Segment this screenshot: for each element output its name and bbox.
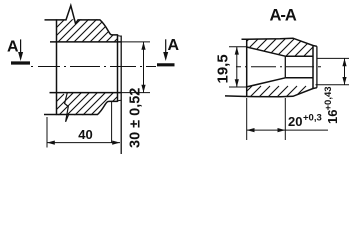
svg-text:30 ± 0,52: 30 ± 0,52 [128,88,144,148]
left view centerline [31,66,156,68]
left view lip bottom face [118,99,122,102]
dimension 16+0,43: top extension line [318,57,350,59]
section marker left: arrowhead [18,52,23,61]
dimension 30±0,52: dimension line with arrows [143,42,145,93]
dimension 20+0,3: left extension line [246,98,248,140]
left view hatching top band [34,18,170,76]
section marker left: thick cut stroke [11,61,30,64]
svg-text:40: 40 [78,127,92,142]
section marker right: arrowhead [163,52,168,61]
A-A hatching top band [226,36,351,84]
break line bottom (jagged) [65,93,69,122]
svg-text:19,5: 19,5 [215,54,232,83]
dimension 19,5: top extension line [229,46,247,48]
A-A bore bottom cone [247,78,286,87]
A-A outer profile [225,38,317,97]
svg-text:20: 20 [288,114,302,129]
A-A centerline [236,66,321,68]
A-A lip outer edge [316,46,318,87]
left view end lip outer edge, long [120,36,122,155]
extension line from bottom shoulder [111,102,113,143]
dimension 19,5: bottom extension line [229,86,247,88]
A-A bore top cone [247,47,286,56]
dimension 19,5: dimension line with arrows [236,47,238,87]
svg-text:A: A [7,39,19,56]
svg-text:16: 16 [325,110,340,124]
svg-text:A: A [168,37,180,54]
dimension 20+0,3: dimension line with arrows [247,129,328,131]
dimension 40: left extension line [46,117,48,148]
A-A bore cylinder top [285,55,313,57]
svg-text:+0,43: +0,43 [323,86,334,110]
svg-text:A-A: A-A [270,7,297,25]
section marker right: arrow shaft [165,39,167,53]
section marker left: arrow shaft [20,39,22,54]
left view hatching bottom band [34,92,170,150]
A-A right end face [312,46,314,89]
dimension 16+0,43: text with tolerance (rotated) [323,86,340,124]
A-A cone-cylinder transition edge [284,56,286,78]
left view bore bottom line (overshoots left, merges with 30-dim extension right) [50,92,122,94]
left view outer profile bottom [44,101,118,114]
dimension 16+0,43: dimension line with arrows [344,58,346,84]
dimension 20+0,3: right extension line [284,98,286,140]
left view left face [56,19,58,115]
left view lip top face [118,35,122,38]
A-A hatching bottom band [226,86,351,134]
A-A bore cylinder bottom [285,77,313,79]
left view outer profile top [45,6,118,35]
A-A left face [246,39,248,96]
svg-text:+0,3: +0,3 [303,113,322,124]
left view bore top line (overshoots left, merges with 30-dim extension right) [50,41,122,43]
section marker right: thick cut stroke [157,63,175,66]
dimension 40: dimension line with arrows [47,142,120,144]
left view right end face [117,34,119,102]
dimension 16+0,43: bottom extension line [316,84,350,86]
